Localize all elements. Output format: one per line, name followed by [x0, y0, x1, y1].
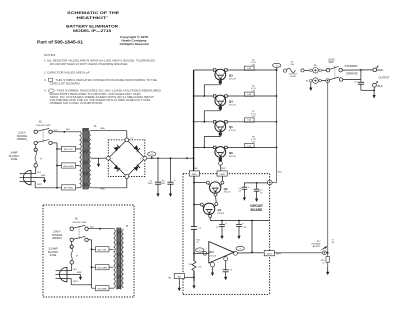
svg-text:RED: RED: [101, 128, 106, 130]
svg-text:RED: RED: [192, 174, 197, 176]
svg-text:BLK-YEL: BLK-YEL: [64, 149, 74, 151]
svg-text:BLK-YEL: BLK-YEL: [98, 250, 108, 252]
svg-text:AC: AC: [75, 218, 79, 221]
svg-text:25: 25: [197, 242, 199, 244]
svg-text:BLK: BLK: [54, 130, 58, 132]
svg-text:All Rights Reserved: All Rights Reserved: [118, 42, 148, 46]
svg-text:BATTERY ELIMINATOR: BATTERY ELIMINATOR: [66, 24, 118, 29]
svg-text:417-291: 417-291: [229, 78, 236, 80]
svg-text:RED: RED: [101, 189, 106, 191]
svg-text:UNDER NO LOAD CONDITIONS.: UNDER NO LOAD CONDITIONS.: [50, 101, 104, 105]
svg-text:417-291: 417-291: [229, 156, 236, 158]
svg-text:0.1Ω: 0.1Ω: [247, 68, 251, 70]
svg-text:ON-OFF SW1: ON-OFF SW1: [72, 222, 87, 224]
svg-text:10% AND WATTAGES 1/2 WATT UNLE: 10% AND WATTAGES 1/2 WATT UNLESS OTHERWI…: [50, 62, 129, 66]
svg-text:WHT: WHT: [37, 184, 42, 186]
svg-text:Q2: Q2: [224, 187, 228, 191]
svg-text:OPERATE: OPERATE: [346, 73, 359, 76]
svg-text:R14: R14: [189, 264, 192, 266]
svg-text:417-801: 417-801: [217, 213, 224, 215]
svg-text:F1: F1: [76, 255, 78, 257]
svg-text:CIRCUIT BOARD.: CIRCUIT BOARD.: [50, 82, 82, 86]
svg-text:417-201: 417-201: [224, 192, 231, 194]
svg-text:BLK: BLK: [66, 129, 70, 131]
svg-text:BLK-GRN: BLK-GRN: [97, 268, 107, 270]
svg-text:GRN: GRN: [77, 272, 82, 274]
svg-text:BLU: BLU: [278, 172, 283, 174]
svg-text:BLK: BLK: [378, 84, 383, 88]
svg-text:2. CAPACITOR VALUES ARE IN µF.: 2. CAPACITOR VALUES ARE IN µF.: [44, 71, 90, 75]
svg-text:BOARD: BOARD: [251, 208, 263, 212]
svg-text:VOLTAGE: VOLTAGE: [311, 242, 321, 245]
svg-text:FUSE: FUSE: [50, 254, 57, 257]
svg-text:417-291: 417-291: [229, 130, 236, 132]
svg-text:Q3: Q3: [229, 73, 233, 77]
svg-text:Q4: Q4: [229, 99, 233, 103]
svg-text:BLK: BLK: [90, 227, 94, 229]
svg-text:NOTES:: NOTES:: [44, 53, 56, 57]
svg-text:0.1Ω: 0.1Ω: [247, 145, 251, 147]
svg-text:Q5: Q5: [229, 125, 233, 129]
svg-text:FUSE: FUSE: [290, 76, 296, 78]
svg-text:WHT: WHT: [276, 253, 282, 255]
svg-text:HEATHKIT: HEATHKIT: [77, 16, 108, 20]
svg-text:D1: D1: [131, 138, 133, 140]
svg-text:BLK: BLK: [37, 172, 41, 174]
svg-text:3 A: 3 A: [290, 63, 294, 66]
svg-text:STANDBY: STANDBY: [345, 65, 359, 68]
svg-text:BLK: BLK: [73, 269, 77, 271]
svg-text:ADJUST: ADJUST: [313, 245, 322, 248]
svg-text:ORN: ORN: [221, 168, 226, 170]
svg-text:BLK-RED: BLK-RED: [64, 188, 74, 190]
svg-text:MODEL IP—2715: MODEL IP—2715: [73, 29, 111, 33]
svg-text:AC: AC: [39, 121, 43, 124]
svg-text:ON-OFF SW1: ON-OFF SW1: [36, 125, 51, 127]
svg-text:BLK-GRN: BLK-GRN: [64, 166, 74, 168]
svg-text:OUTPUT: OUTPUT: [379, 75, 390, 79]
svg-text:Q1: Q1: [217, 208, 221, 212]
svg-text:BLK-RED: BLK-RED: [97, 289, 107, 291]
svg-text:0.1Ω: 0.1Ω: [247, 94, 251, 96]
svg-text:3.: 3.: [44, 78, 47, 82]
svg-text:RED: RED: [193, 168, 198, 170]
svg-text:WIRING): WIRING): [52, 237, 62, 240]
svg-text:F1: F1: [40, 158, 42, 160]
svg-text:417-291: 417-291: [229, 104, 236, 106]
svg-text:RED: RED: [377, 68, 383, 72]
svg-text:SCHEMATIC OF THE: SCHEMATIC OF THE: [67, 10, 119, 15]
svg-text:Part of 595-1845-01: Part of 595-1845-01: [37, 40, 84, 45]
svg-text:FUSE: FUSE: [11, 158, 18, 161]
svg-text:Q6: Q6: [229, 151, 233, 155]
svg-text:741-06: 741-06: [210, 255, 217, 257]
svg-text:ORN: ORN: [220, 174, 225, 176]
svg-text:SW2: SW2: [329, 62, 335, 64]
svg-text:0.1Ω: 0.1Ω: [247, 120, 251, 122]
svg-text:WIRING): WIRING): [17, 138, 27, 141]
svg-text:GRN: GRN: [41, 175, 46, 177]
svg-text:4.: 4.: [44, 89, 47, 93]
svg-text:IC1: IC1: [210, 250, 215, 254]
svg-text:WHT: WHT: [267, 254, 273, 256]
svg-text:WHT: WHT: [73, 281, 78, 283]
